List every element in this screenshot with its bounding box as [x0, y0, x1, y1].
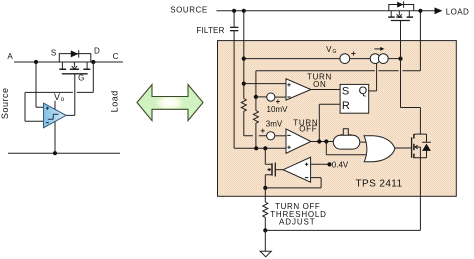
node ground junction dot [263, 228, 267, 232]
U4 plus mark [287, 146, 290, 149]
svg-text:A: A [7, 52, 13, 61]
wire to 10mV source [256, 96, 267, 98]
diode D2 body diode of Q2 [397, 2, 403, 8]
main threshold wire [234, 147, 286, 149]
double arrow symbol [137, 85, 203, 121]
transistor Q4 channel [271, 163, 273, 175]
wire turn-on + input [244, 83, 286, 85]
node 0.4V ref dot [327, 162, 331, 166]
box TPS2411 outline [218, 41, 457, 197]
one-shot U5 [333, 135, 360, 149]
svg-text:G: G [333, 49, 337, 55]
node ground junction dot [53, 151, 57, 155]
wire body-diode loop Q1 [59, 54, 91, 62]
wire 0.4V reference [311, 163, 328, 165]
comparator U1 minus mark [46, 122, 49, 124]
ground rail [8, 152, 120, 154]
transistor Q2 body arrow [397, 11, 402, 17]
resistor R1 [241, 99, 266, 136]
comparator U1 triangle [44, 103, 67, 128]
plus mark of G1 [351, 51, 355, 55]
comparator U2 TURN ON [286, 79, 311, 100]
transistor Q1 source/drain stubs [62, 62, 87, 69]
transistor Q1 contact bars [59, 68, 90, 70]
offset source V1 10mV [267, 93, 275, 101]
svg-text:o: o [61, 97, 65, 103]
transistor Q2 source/drain stubs [391, 11, 409, 17]
wire body diode loop Q2 [389, 5, 414, 11]
U4 minus mark [287, 134, 290, 136]
svg-text:0.4V: 0.4V [332, 160, 349, 169]
U2 plus mark [287, 83, 290, 86]
svg-text:C: C [113, 52, 119, 61]
node D junction dot [91, 60, 95, 64]
wire Q output to current source [376, 63, 378, 91]
svg-text:SOURCE: SOURCE [170, 6, 208, 15]
svg-text:V: V [54, 92, 60, 102]
node R branch dot [317, 139, 321, 143]
node turn-on + junction dot [242, 82, 246, 86]
arrow above current source [374, 48, 381, 50]
svg-text:D: D [94, 47, 100, 56]
transistor Q3 contact bars [413, 134, 415, 158]
node VG rail junction dot [242, 57, 246, 61]
wire rail to gate node [388, 58, 400, 60]
wire rail between circles [350, 58, 371, 60]
svg-text:10mV: 10mV [267, 105, 289, 114]
wire load sense from Q2 drain [256, 11, 421, 97]
svg-text:LOAD: LOAD [446, 7, 469, 16]
transistor Q4 source lead [265, 175, 272, 188]
or-gate U6 [364, 136, 395, 162]
svg-text:S: S [51, 48, 56, 57]
transistor Q2 contact bars [388, 16, 413, 18]
node main wire dot 2 [263, 146, 267, 150]
node main wire dot 1 [254, 146, 258, 150]
wire Q3 source to ground run [265, 158, 420, 231]
wire drain sense (C side to - input) [25, 62, 93, 121]
node 10mV junction dot [254, 95, 258, 99]
node gate junction dot [398, 57, 402, 61]
VG rail [244, 58, 340, 60]
node bypass branch dot [324, 139, 328, 143]
wire threshold pin down [264, 188, 266, 202]
transistor Q1 gate plate [62, 73, 88, 75]
plus mark of V1 [276, 100, 280, 104]
wire top rail A-C [14, 61, 123, 63]
transistor Q4 body arrow [267, 168, 271, 170]
current source I1 (overlapping circles) [370, 54, 380, 64]
node source sense junction dot [242, 9, 246, 13]
comparator U1 hysteresis symbol [48, 114, 59, 119]
svg-text:Q: Q [359, 85, 368, 97]
wire source rail [217, 10, 435, 12]
transistor Q3 drain lead [414, 133, 420, 135]
wire gate lead of Q1 to comparator output [66, 74, 75, 116]
wire gate drive vertical to Q2 gate [401, 21, 421, 135]
transistor Q3 body tie and arrow [415, 145, 421, 148]
svg-text:R: R [342, 100, 350, 112]
wire U7 minus feedback loop [265, 178, 321, 188]
node load junction dot [418, 9, 422, 13]
capacitor C1 filter [230, 11, 238, 149]
node threshold pin dot [263, 186, 267, 190]
svg-text:FILTER: FILTER [196, 26, 224, 35]
U2 minus mark [287, 96, 290, 98]
svg-text:Source: Source [0, 88, 10, 120]
comparator U7 0.4V (points left) [283, 157, 310, 182]
transistor Q4 drain lead [265, 148, 272, 164]
diode D1 (body diode of Q1) [71, 50, 79, 57]
wire latch R input [319, 104, 340, 141]
transistor Q1 body arrow [72, 62, 78, 69]
U7 minus mark [305, 177, 308, 179]
wire source sense (A side to + input) [36, 62, 44, 107]
resistor R2 [253, 97, 258, 148]
plus mark of V2 [261, 129, 265, 133]
wire or-gate output to Q3 gate [395, 147, 412, 149]
wire U7 output to Q4 gate [275, 169, 283, 171]
latch U3 SR [340, 84, 369, 113]
diode D3 body diode of Q3 [420, 134, 431, 142]
wire to ground symbol [264, 230, 266, 251]
svg-text:V: V [326, 45, 332, 54]
svg-text:TPS 2411: TPS 2411 [356, 178, 403, 189]
svg-text:ADJUST: ADJUST [279, 218, 316, 227]
svg-text:S: S [342, 86, 349, 98]
wire one-shot output [360, 141, 367, 143]
node filter junction dot [232, 9, 236, 13]
svg-text:3mV: 3mV [266, 120, 283, 129]
wire U2 output to latch S [311, 89, 340, 91]
wire supply stub V+ [54, 101, 56, 110]
ground symbol [260, 251, 271, 257]
svg-text:G: G [78, 73, 84, 82]
wire bypass [326, 142, 366, 155]
offset source V2 3mV [267, 132, 275, 140]
svg-text:OFF: OFF [299, 125, 317, 134]
comparator U1 plus mark [46, 107, 49, 110]
wire latch Q output [369, 90, 377, 92]
arrow to LOAD [435, 7, 443, 14]
comparator U4 TURN OFF [286, 129, 311, 153]
one-shot pulse symbol [340, 129, 351, 136]
wire source sense vertical [243, 11, 245, 99]
transistor Q4 gate plate [274, 163, 276, 177]
transistor Q2 gate plate [391, 20, 410, 22]
transistor Q3 gate plate [411, 137, 413, 158]
transistor Q3 source lead [414, 147, 420, 158]
wire U4 output [311, 141, 333, 143]
node A junction dot [34, 60, 38, 64]
wire supply stub to ground rail [54, 122, 56, 154]
svg-text:Load: Load [110, 90, 120, 112]
svg-text:ON: ON [313, 80, 326, 89]
resistor R3 threshold adjust [263, 202, 268, 230]
U7 plus mark [305, 163, 308, 166]
gate driver circle G1 [340, 54, 350, 64]
